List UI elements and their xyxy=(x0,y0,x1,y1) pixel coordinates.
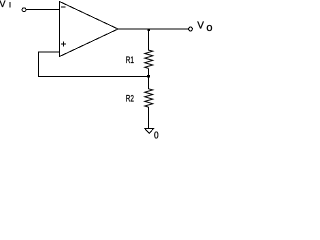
wire node to R2 xyxy=(148,77,150,90)
pin minus xyxy=(61,6,66,8)
junction output node xyxy=(147,28,150,31)
resistor R2 xyxy=(145,89,153,107)
svg-text:0: 0 xyxy=(154,130,159,141)
resistor R1 xyxy=(145,50,153,68)
wire feedback horizontal xyxy=(39,76,149,78)
svg-text:R2: R2 xyxy=(126,94,134,104)
svg-text:V: V xyxy=(197,21,204,32)
wire feedback vertical xyxy=(38,52,40,78)
junction feedback node xyxy=(147,75,150,78)
wire Vi to inverting input xyxy=(26,9,59,11)
svg-text:R1: R1 xyxy=(126,55,134,65)
wire output node to R1 xyxy=(148,29,150,51)
terminal Vo xyxy=(189,27,193,31)
terminal Vi xyxy=(22,8,26,12)
wire R2 to ground xyxy=(148,107,150,129)
node Vo label xyxy=(197,21,212,34)
svg-text:V: V xyxy=(0,0,6,9)
node Vi label xyxy=(0,0,10,9)
svg-text:o: o xyxy=(206,22,212,34)
ground xyxy=(145,129,154,134)
wire R1 to node xyxy=(148,69,150,77)
op-amp U1 xyxy=(60,2,119,57)
wire output xyxy=(118,28,189,30)
wire plus input left xyxy=(39,51,60,53)
pin plus xyxy=(61,41,66,46)
